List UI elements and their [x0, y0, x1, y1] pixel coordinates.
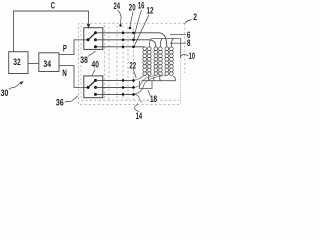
leader 2: [185, 20, 192, 24]
wire N: [59, 65, 88, 87]
arrowhead into switch box 38: [87, 24, 90, 29]
phase line bottom row2 y=87.4: [96, 86, 134, 88]
block 32: [9, 52, 28, 74]
leader 14: [135, 103, 139, 111]
svg-text:22: 22: [129, 60, 136, 70]
switch box 40: [84, 76, 103, 98]
phase line bottom row1 y=80.4: [96, 79, 134, 81]
block 34: [39, 53, 59, 72]
leader 8: [170, 42, 186, 44]
switch box 38: [84, 28, 103, 50]
dashed box 2 outer: [79, 23, 185, 104]
leader 30: [9, 83, 21, 90]
leader 24: [118, 10, 122, 24]
transformer T1 secondary coil: [147, 47, 151, 76]
secondary top bus: [149, 39, 180, 47]
dashed cell boundary x=133.5 (through junction column B): [133, 28, 135, 100]
wire 32-34: [28, 63, 39, 65]
transformer T2 primary coil: [154, 47, 158, 76]
svg-text:32: 32: [13, 57, 20, 67]
leader 40: [92, 70, 95, 77]
svg-text:24: 24: [114, 1, 121, 11]
leader 10: [180, 55, 188, 57]
svg-text:2: 2: [193, 12, 197, 22]
phase line top row3 y=46.8: [96, 46, 145, 48]
svg-text:20: 20: [129, 2, 136, 12]
svg-text:14: 14: [136, 111, 143, 120]
secondary right bus vertical: [180, 39, 182, 59]
wire C: control line from box 32 to switch 38: [14, 11, 89, 52]
dashed cell boundary x=123 (through junction column A): [122, 26, 124, 101]
junction dots column A top: [122, 32, 125, 35]
leader dot 20: [129, 27, 131, 29]
svg-text:N: N: [62, 68, 67, 78]
transformer T2 secondary coil: [159, 47, 163, 76]
leader 6: [170, 34, 186, 36]
svg-text:P: P: [63, 43, 67, 53]
svg-text:16: 16: [138, 1, 145, 11]
leader 38: [89, 51, 96, 57]
leader 18: [148, 90, 151, 96]
svg-text:C: C: [51, 1, 56, 11]
svg-text:12: 12: [147, 5, 154, 15]
phase line bottom row3 y=94.4: [96, 93, 134, 95]
secondary bottom bus: [142, 74, 176, 80]
leader 36: [65, 96, 78, 103]
svg-text:38: 38: [80, 55, 87, 65]
svg-text:18: 18: [150, 94, 157, 104]
dashed cell boundary x=109: [108, 27, 110, 100]
junction dots column B bottom: [132, 79, 135, 82]
dashed box 36 left edge: [80, 25, 82, 100]
svg-text:30: 30: [1, 88, 9, 98]
dashed cell boundary x=117: [116, 26, 118, 101]
junction dots column A bottom: [122, 79, 125, 82]
junction dots column B top: [132, 32, 135, 35]
bus 18 segment: [140, 81, 153, 89]
inner dashed bottom line: [81, 99, 180, 101]
svg-text:40: 40: [92, 60, 99, 70]
leader 12: [134, 15, 149, 46]
svg-text:10: 10: [189, 51, 195, 61]
wire P: [59, 40, 88, 55]
outer box right edge upper part: [184, 23, 186, 73]
leader 16: [134, 10, 142, 39]
transformer T1 primary coil: [143, 47, 147, 76]
phase line top row2 y=39.8: [96, 40, 156, 47]
svg-text:8: 8: [187, 38, 191, 48]
dashed cell boundary x=128: [127, 27, 129, 100]
dashed cell boundary x=104.7: [104, 25, 106, 100]
wire row94 to T3 primary: [134, 75, 167, 94]
leader 22: [134, 69, 137, 78]
leader dot 24: [119, 24, 121, 26]
phase line top row1 y=32.8: [96, 33, 167, 47]
leader 20: [130, 12, 133, 27]
svg-text:34: 34: [43, 59, 51, 69]
transformer T3 primary coil: [165, 47, 169, 76]
svg-text:36: 36: [56, 98, 64, 108]
transformer T3 secondary coil: [170, 47, 174, 76]
